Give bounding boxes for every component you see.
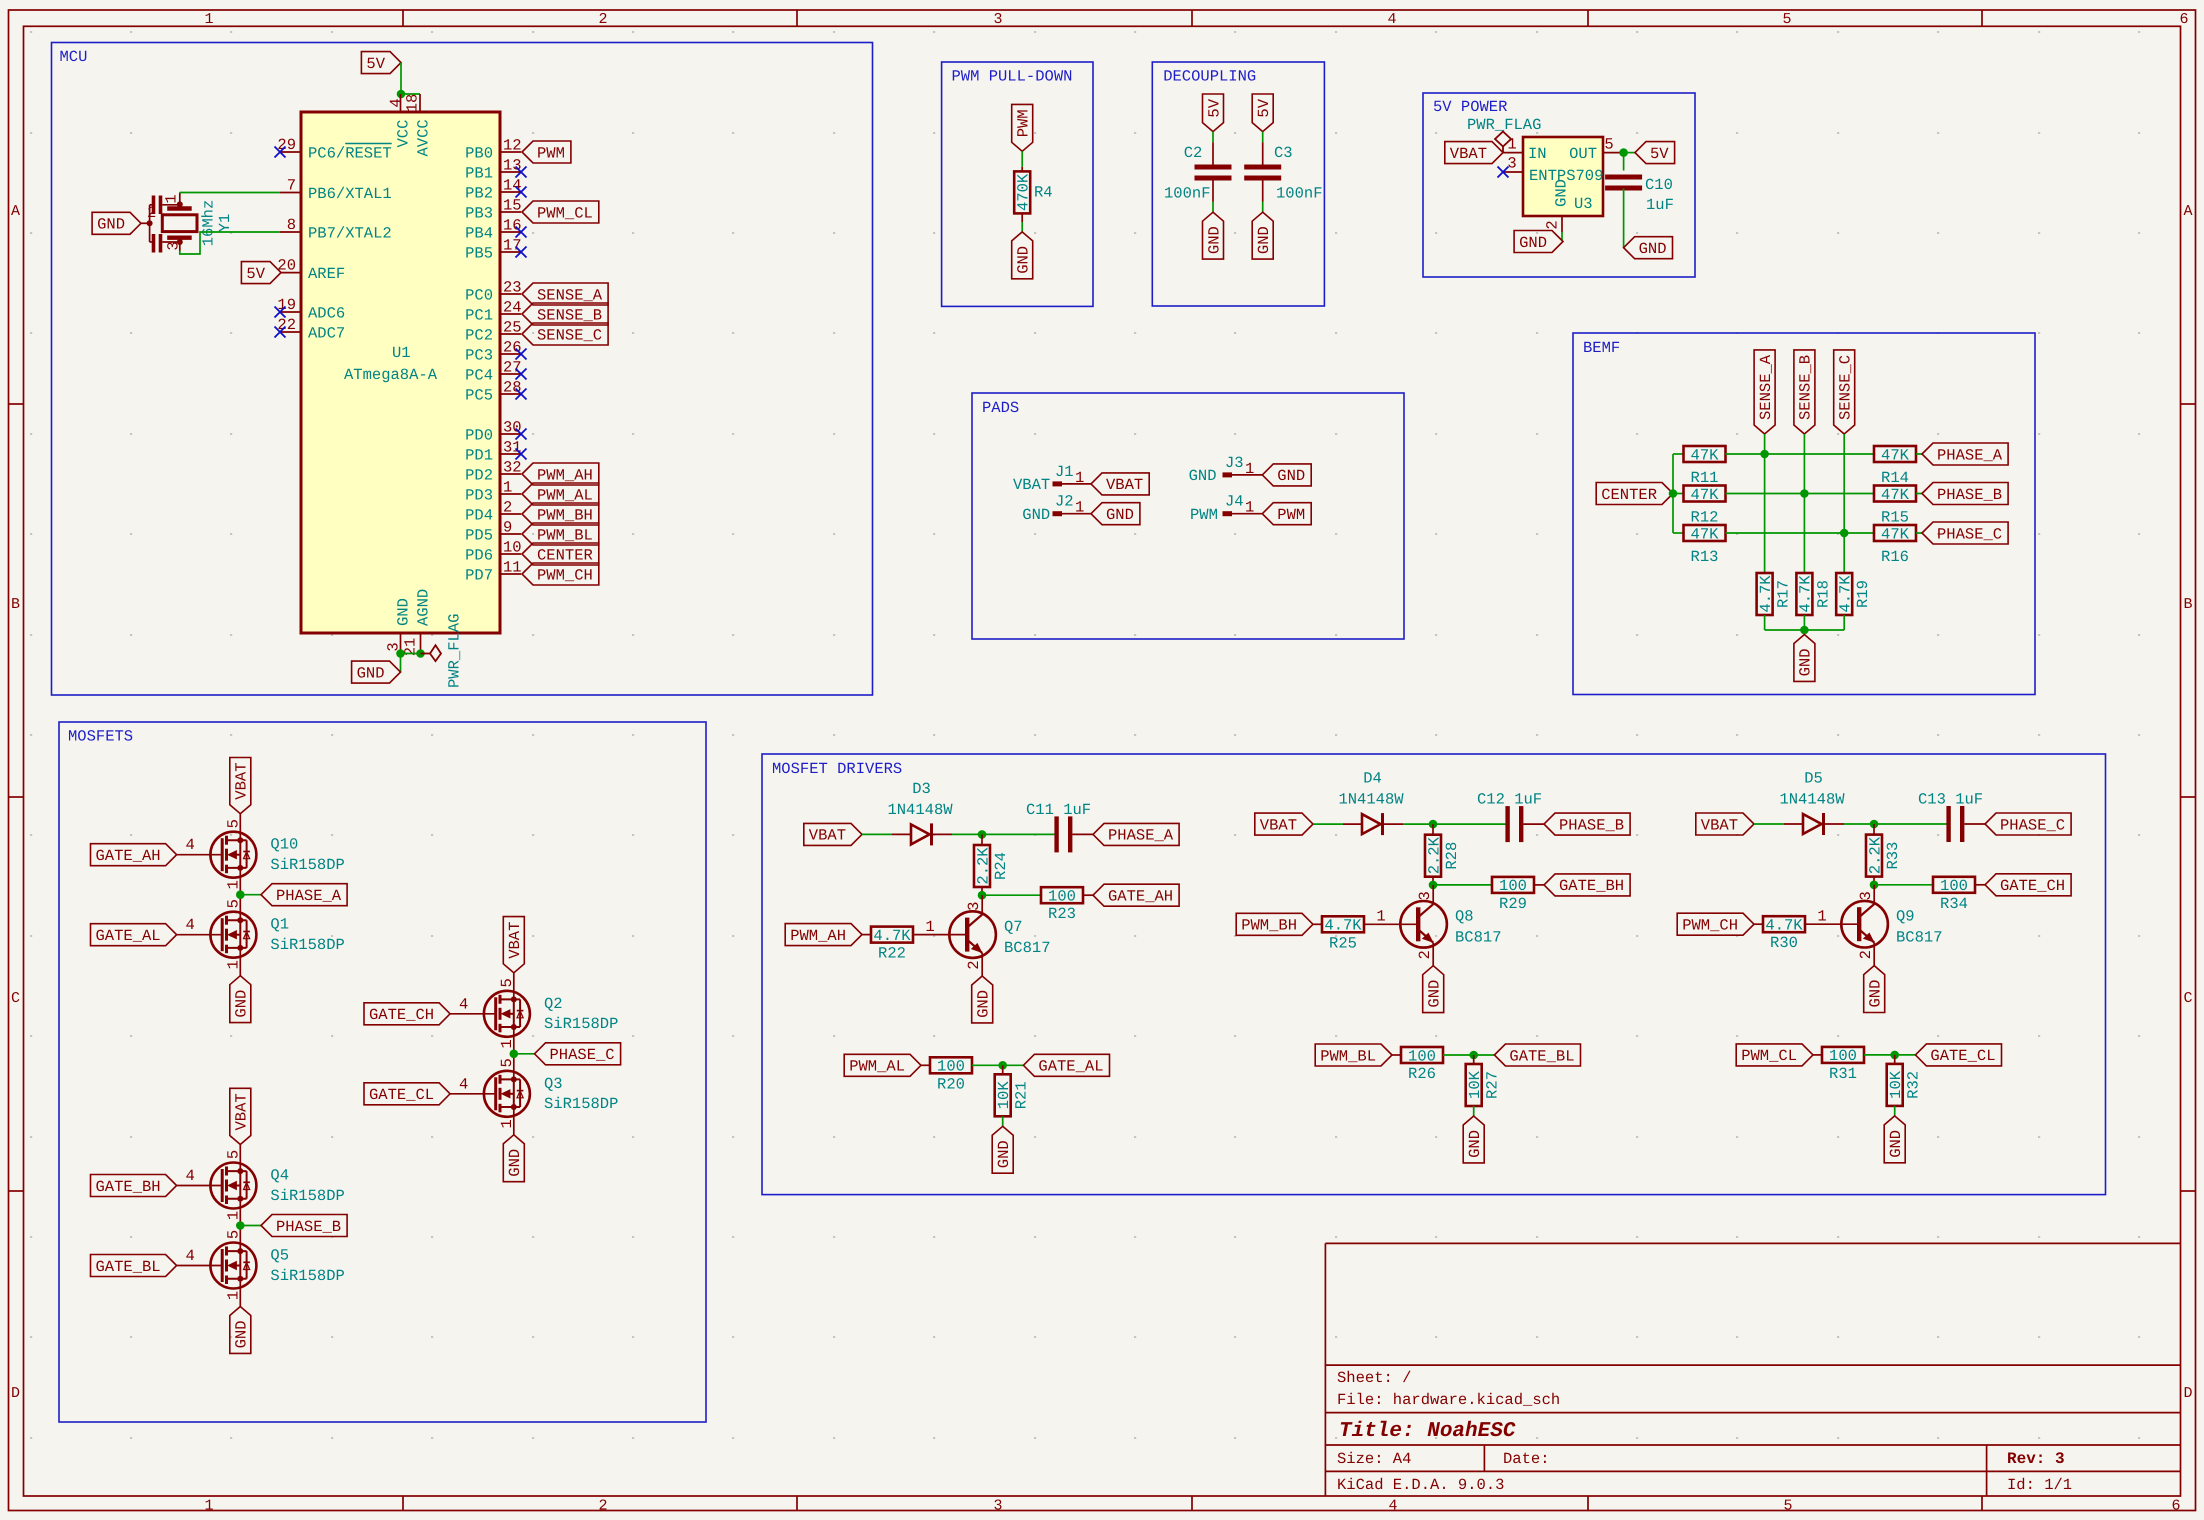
svg-text:GND: GND (357, 664, 385, 682)
global label PWM_BH (1236, 913, 1313, 935)
junction CENTER (1669, 489, 1678, 498)
pin 22 ADC7 (NC) (280, 331, 301, 333)
svg-text:100: 100 (1940, 877, 1968, 895)
capacitor C3 100nF (1244, 165, 1281, 170)
regulator U3 ENTPS709 body (1523, 137, 1603, 216)
svg-text:J2: J2 (1055, 493, 1074, 511)
wire VBAT to D4 (1313, 823, 1343, 825)
svg-text:10K: 10K (1887, 1070, 1905, 1099)
svg-text:100: 100 (937, 1058, 965, 1076)
wire to GND symbol (400, 654, 402, 673)
crystal pin 1 (179, 193, 181, 209)
global label CENTER (1596, 483, 1673, 505)
capacitor C12 1uF (1505, 806, 1509, 842)
pin 20 AREF (281, 272, 301, 274)
svg-text:BC817: BC817 (1896, 929, 1943, 947)
svg-text:10K: 10K (995, 1081, 1013, 1110)
svg-text:PHASE_B: PHASE_B (1559, 816, 1624, 834)
svg-text:GND: GND (1867, 980, 1885, 1008)
wire CENTER bus vertical (1672, 454, 1674, 533)
svg-text:PHASE_A: PHASE_A (276, 887, 342, 905)
svg-text:GND: GND (1553, 179, 1571, 207)
pin 29 PC6/RESET (NC) (280, 151, 301, 153)
pin 16 PB4 (NC) (500, 231, 521, 233)
svg-text:R24: R24 (992, 852, 1010, 880)
svg-text:5V: 5V (366, 55, 385, 73)
svg-text:SiR158DP: SiR158DP (270, 856, 344, 874)
wire 5V to VCC/AVCC junction (401, 63, 420, 94)
svg-text:VBAT: VBAT (809, 827, 846, 845)
resistor R18 4.7K (1796, 573, 1812, 615)
svg-text:1: 1 (1817, 908, 1826, 926)
resistor R19 4.7K (1836, 573, 1852, 615)
svg-text:C2: C2 (1184, 144, 1203, 162)
svg-text:100: 100 (1048, 888, 1076, 906)
svg-text:1: 1 (225, 880, 243, 889)
crystal body (162, 215, 197, 232)
svg-text:PWR_FLAG: PWR_FLAG (1467, 116, 1541, 134)
svg-text:4.7K: 4.7K (873, 927, 911, 945)
svg-text:PADS: PADS (982, 399, 1019, 417)
resistor R24 2.2K (981, 834, 983, 845)
pin 2 PD4 -> PWM_BH (500, 513, 521, 515)
wire gate Q2 (450, 1013, 496, 1015)
crystal pin 3 (179, 238, 181, 251)
svg-text:AGND: AGND (415, 589, 433, 626)
wire C2 to GND (1212, 181, 1214, 202)
wire to PHASE_A label (240, 894, 261, 896)
svg-text:10: 10 (503, 539, 522, 557)
svg-text:PC0: PC0 (465, 286, 493, 304)
svg-text:GND: GND (1205, 226, 1223, 254)
pin 3 (NC) (1504, 171, 1523, 173)
capacitor C13 1uF (1946, 806, 1950, 842)
wire R30 to base (1805, 923, 1859, 925)
pin 1 PD3 -> PWM_AL (500, 493, 521, 495)
svg-text:31: 31 (503, 439, 522, 457)
wire to PHASE_B label (240, 1225, 261, 1227)
svg-text:PD1: PD1 (465, 446, 493, 464)
global label GATE_BL (1494, 1044, 1580, 1066)
svg-text:SENSE_A: SENSE_A (1757, 354, 1775, 420)
junction GATE_BL node (1469, 1051, 1478, 1060)
junction VCC node (397, 90, 406, 99)
svg-text:PD5: PD5 (465, 526, 493, 544)
svg-text:GATE_AL: GATE_AL (96, 927, 161, 945)
svg-text:R30: R30 (1770, 934, 1798, 952)
svg-text:16Mhz: 16Mhz (199, 200, 217, 247)
wire to R34 (1874, 884, 1933, 886)
svg-text:PWM_AL: PWM_AL (537, 486, 593, 504)
power label GND (U3) (1514, 231, 1563, 253)
section MCU (52, 43, 873, 696)
svg-text:PD6: PD6 (465, 546, 493, 564)
svg-text:R16: R16 (1881, 548, 1909, 566)
resistor R12 47K (1684, 486, 1726, 502)
svg-text:4: 4 (1387, 11, 1396, 28)
svg-text:OUT: OUT (1569, 145, 1597, 163)
pin 27 PC4 (NC) (500, 373, 521, 375)
svg-text:4: 4 (387, 98, 405, 107)
section BEMF (1573, 333, 2035, 695)
svg-text:4.7K: 4.7K (1757, 575, 1775, 613)
svg-text:5: 5 (498, 1058, 516, 1067)
global label SENSE_B (PC1) (522, 303, 608, 325)
pin 18 AVCC (419, 94, 421, 112)
svg-text:PB6/XTAL1: PB6/XTAL1 (308, 185, 392, 203)
svg-text:26: 26 (503, 339, 522, 357)
pin 2 GND (U3) (1561, 216, 1563, 232)
svg-text:GATE_CL: GATE_CL (369, 1086, 434, 1104)
pin 4 VCC (400, 94, 402, 112)
svg-text:Rev: 3: Rev: 3 (2007, 1450, 2065, 1468)
global label SENSE_B (1794, 350, 1815, 434)
svg-text:VBAT: VBAT (1106, 476, 1143, 494)
svg-text:PB0: PB0 (465, 144, 493, 162)
svg-text:GND: GND (1106, 506, 1134, 524)
svg-text:PB5: PB5 (465, 244, 493, 262)
svg-text:4.7K: 4.7K (1765, 917, 1803, 935)
svg-text:PD7: PD7 (465, 566, 493, 584)
svg-text:PD4: PD4 (465, 506, 493, 524)
pin 19 ADC6 (NC) (280, 311, 301, 313)
svg-text:2: 2 (1544, 220, 1562, 229)
svg-text:GND: GND (233, 990, 251, 1018)
resistor R33 2.2K (1873, 824, 1875, 835)
global label PWM_AH (PD2) (522, 463, 599, 485)
svg-text:AVCC: AVCC (415, 119, 433, 156)
svg-text:Q5: Q5 (270, 1247, 289, 1265)
pin 9 PD5 -> PWM_BL (500, 533, 521, 535)
svg-text:PWM: PWM (537, 144, 565, 162)
svg-text:GATE_CH: GATE_CH (2000, 877, 2065, 895)
global label PHASE_C (535, 1043, 621, 1065)
svg-text:3: 3 (965, 902, 983, 911)
svg-text:U3: U3 (1574, 195, 1593, 213)
svg-text:PHASE_B: PHASE_B (1937, 486, 2002, 504)
power label GND (R27) (1463, 1116, 1484, 1163)
section MOSFETS (59, 722, 706, 1422)
global label GATE_BH (1544, 874, 1630, 896)
svg-text:2: 2 (503, 499, 512, 517)
svg-text:GND: GND (233, 1320, 251, 1348)
svg-text:47K: 47K (1881, 486, 1910, 504)
svg-text:27: 27 (503, 359, 522, 377)
svg-text:GATE_AL: GATE_AL (1038, 1058, 1103, 1076)
resistor R29 100 (1492, 877, 1534, 893)
svg-text:4.7K: 4.7K (1324, 917, 1362, 935)
svg-text:GND: GND (975, 990, 993, 1018)
svg-text:PWM: PWM (1277, 506, 1305, 524)
IC U1 ATmega8A-A body (301, 112, 500, 633)
svg-text:D4: D4 (1363, 770, 1382, 788)
svg-text:AREF: AREF (308, 265, 345, 283)
svg-text:R23: R23 (1048, 905, 1076, 923)
junction 5V out (1619, 148, 1628, 157)
wire R15 to PHASE_B (1916, 493, 1922, 495)
svg-text:ADC6: ADC6 (308, 304, 345, 322)
svg-text:4: 4 (459, 995, 468, 1013)
svg-text:PWM_CH: PWM_CH (1682, 917, 1738, 935)
svg-text:GND: GND (1189, 467, 1217, 485)
resistor R28 2.2K (1432, 824, 1434, 835)
transistor Q8 BC817 (1400, 901, 1447, 948)
svg-text:GATE_BH: GATE_BH (1559, 877, 1624, 895)
svg-text:Y1: Y1 (216, 214, 234, 233)
svg-text:J1: J1 (1055, 463, 1074, 481)
wire C10 to GND (1623, 189, 1625, 248)
power label GND (crystal) (92, 212, 141, 234)
svg-text:PHASE_C: PHASE_C (1937, 525, 2002, 543)
wire R20 to GATE_AL (972, 1064, 1023, 1066)
svg-text:D: D (2183, 1385, 2192, 1402)
svg-text:100nF: 100nF (1164, 184, 1211, 202)
pin 3 GND (MCU) (400, 633, 402, 654)
junction PHASE_B (236, 1221, 245, 1230)
global label SENSE_A (PC0) (522, 283, 608, 305)
svg-text:C11 1uF: C11 1uF (1026, 801, 1091, 819)
global label PHASE_A (1922, 443, 2008, 465)
global label PWM (pull-down) (1012, 104, 1033, 151)
svg-text:5: 5 (225, 1230, 243, 1239)
global label PHASE_A (driver) (1093, 823, 1179, 845)
global label CENTER (PD6) (522, 543, 599, 565)
wire D3 to C11 (952, 833, 1055, 835)
svg-text:D: D (11, 1385, 20, 1402)
svg-text:A: A (11, 203, 20, 220)
svg-text:2: 2 (1857, 950, 1875, 959)
svg-text:PWM_AH: PWM_AH (537, 466, 593, 484)
wire R32 to GND (1894, 1106, 1896, 1116)
power label VBAT (Q2) (503, 917, 524, 973)
svg-text:VBAT: VBAT (233, 1093, 251, 1130)
wire J3 to label (1232, 474, 1262, 476)
transistor Q2 SiR158DP (484, 991, 530, 1037)
svg-text:PHASE_C: PHASE_C (2000, 816, 2065, 834)
wire R18 to GND rail (1803, 615, 1805, 630)
svg-text:PD3: PD3 (465, 486, 493, 504)
svg-text:100: 100 (1499, 877, 1527, 895)
power label GND (Q9) (1864, 966, 1885, 1013)
svg-text:GND: GND (97, 216, 125, 234)
power label 5V (C2) (1203, 94, 1224, 132)
pin 10 PD6 -> CENTER (500, 553, 521, 555)
section DECOUPLING (1152, 62, 1324, 306)
svg-text:1: 1 (498, 1039, 516, 1048)
svg-text:PB4: PB4 (465, 224, 493, 242)
wire 5V to C3 (1262, 132, 1264, 143)
wire gate Q3 (450, 1093, 496, 1095)
capacitor C10 1uF (1605, 175, 1642, 180)
global label PWM_AL (844, 1054, 921, 1076)
junction GATE_CL node (1890, 1051, 1899, 1060)
svg-text:4: 4 (1388, 1498, 1397, 1515)
svg-text:PWM_BL: PWM_BL (537, 526, 593, 544)
wire gate Q10 (177, 854, 223, 856)
wire R22 to base (913, 934, 967, 936)
power label VBAT (U3 in) (1445, 142, 1503, 164)
svg-text:17: 17 (503, 237, 522, 255)
svg-text:9: 9 (503, 519, 512, 537)
svg-text:GATE_BL: GATE_BL (96, 1258, 161, 1276)
wire CENTER to R11 (1673, 453, 1684, 455)
junction GATE_CH node (1870, 881, 1879, 890)
junction PHASE_B row (1800, 489, 1809, 498)
global label PWM_CL (PB3) (522, 201, 599, 223)
svg-text:PHASE_A: PHASE_A (1937, 446, 2003, 464)
svg-text:PHASE_A: PHASE_A (1108, 827, 1174, 845)
power label GND (Q7) (972, 976, 993, 1023)
wire OUT to C10 (1623, 153, 1625, 171)
svg-text:R28: R28 (1443, 842, 1461, 870)
svg-text:PWM_BH: PWM_BH (537, 506, 593, 524)
svg-text:1: 1 (925, 918, 934, 936)
svg-text:4: 4 (459, 1075, 468, 1093)
global label GATE_BL (91, 1255, 177, 1277)
svg-text:2.2K: 2.2K (1866, 836, 1884, 874)
svg-text:16: 16 (503, 217, 522, 235)
svg-text:GATE_AH: GATE_AH (96, 847, 161, 865)
power label 5V (AREF) (241, 262, 281, 284)
wire R16 to PHASE_C (1916, 532, 1922, 534)
svg-text:GND: GND (1519, 234, 1547, 252)
svg-text:4.7K: 4.7K (1837, 575, 1855, 613)
svg-text:B: B (2183, 596, 2192, 613)
crystal pin 2 / GND side (149, 205, 151, 242)
pin 26 PC3 (NC) (500, 353, 521, 355)
svg-text:4: 4 (185, 1247, 194, 1265)
wire SENSE_C vertical (1843, 434, 1845, 573)
svg-text:14: 14 (503, 177, 522, 195)
svg-text:3: 3 (1416, 891, 1434, 900)
svg-text:VBAT: VBAT (1701, 816, 1738, 834)
svg-text:5: 5 (225, 819, 243, 828)
svg-text:C: C (11, 990, 20, 1007)
power label 5V (C3) (1252, 94, 1273, 132)
global label GND (J3) (1262, 464, 1311, 486)
global label PHASE_A (261, 884, 347, 906)
svg-text:GND: GND (1426, 980, 1444, 1008)
svg-text:5: 5 (1782, 11, 1791, 28)
resistor R21 10K (1002, 1065, 1004, 1074)
power label GND (Q8) (1423, 966, 1444, 1013)
svg-text:PC6/RESET: PC6/RESET (308, 144, 392, 162)
svg-text:SENSE_C: SENSE_C (537, 326, 602, 344)
wire OUT to 5V label (1624, 152, 1635, 154)
svg-text:Q2: Q2 (544, 995, 563, 1013)
transistor Q10 SiR158DP (210, 832, 256, 878)
pin 11 PD7 -> PWM_CH (500, 573, 521, 575)
junction D5 out (1870, 820, 1879, 829)
global label PHASE_C (1922, 522, 2008, 544)
svg-text:PC3: PC3 (465, 346, 493, 364)
pin 15 PB3 -> PWM_CL (500, 211, 521, 213)
svg-text:PB3: PB3 (465, 204, 493, 222)
global label GATE_BH (91, 1175, 177, 1197)
svg-text:SENSE_B: SENSE_B (537, 306, 602, 324)
pin 12 PB0 -> PWM (500, 151, 521, 153)
svg-text:SENSE_C: SENSE_C (1837, 355, 1855, 420)
svg-text:15: 15 (503, 197, 522, 215)
svg-text:PB1: PB1 (465, 164, 493, 182)
junction D3 out (978, 830, 987, 839)
resistor R4 470K (1014, 171, 1030, 213)
svg-text:R20: R20 (937, 1075, 965, 1093)
svg-text:1N4148W: 1N4148W (1779, 791, 1845, 809)
svg-text:1uF: 1uF (1646, 196, 1674, 214)
wire R14 to PHASE_A (1916, 453, 1922, 455)
svg-text:2.2K: 2.2K (1425, 836, 1443, 874)
svg-text:GATE_BL: GATE_BL (1509, 1047, 1574, 1065)
wire VBAT to D5 (1754, 823, 1784, 825)
svg-text:12: 12 (503, 137, 522, 155)
pin 17 PB5 (NC) (500, 251, 521, 253)
resistor R34 100 (1933, 877, 1975, 893)
svg-text:47K: 47K (1691, 486, 1720, 504)
global label PWM_BH (PD4) (522, 503, 599, 525)
svg-text:GND: GND (506, 1149, 524, 1177)
section MOSFET DRIVERS (762, 754, 2106, 1195)
svg-text:VBAT: VBAT (1260, 816, 1297, 834)
wire PWM to R4 (1021, 151, 1023, 167)
global label PWM_BL (1315, 1044, 1392, 1066)
svg-text:3: 3 (993, 1498, 1002, 1515)
wire XTAL2 (180, 232, 280, 254)
svg-text:PC1: PC1 (465, 306, 493, 324)
pin 13 PB1 (NC) (500, 171, 521, 173)
svg-text:5: 5 (1783, 1498, 1792, 1515)
svg-text:PB7/XTAL2: PB7/XTAL2 (308, 224, 392, 242)
pin 32 PD2 -> PWM_AH (500, 473, 521, 475)
wire C3 to GND (1262, 181, 1264, 202)
svg-text:Q1: Q1 (270, 916, 289, 934)
svg-text:GND: GND (1015, 246, 1033, 274)
global label VBAT (J1) (1091, 473, 1149, 495)
svg-text:23: 23 (503, 279, 522, 297)
global label PWM_CH (1677, 913, 1754, 935)
resistor R14 47K (1874, 446, 1916, 462)
svg-text:R29: R29 (1499, 895, 1527, 913)
svg-text:4: 4 (185, 836, 194, 854)
transistor Q5 SiR158DP (210, 1243, 256, 1289)
junction GATE_AL node (998, 1061, 1007, 1070)
svg-text:5: 5 (225, 899, 243, 908)
svg-text:PC2: PC2 (465, 326, 493, 344)
svg-text:5V: 5V (1255, 98, 1273, 117)
svg-text:PWM_CL: PWM_CL (1741, 1047, 1797, 1065)
junction GND rail (1800, 626, 1809, 635)
svg-text:R25: R25 (1329, 934, 1357, 952)
wire gate Q4 (177, 1185, 223, 1187)
resistor R17 4.7K (1757, 573, 1773, 615)
global label PWM_CL (1736, 1044, 1813, 1066)
svg-text:File: hardware.kicad_sch: File: hardware.kicad_sch (1337, 1391, 1560, 1409)
svg-text:100: 100 (1829, 1047, 1857, 1065)
svg-text:GND: GND (995, 1140, 1013, 1168)
svg-text:4: 4 (185, 916, 194, 934)
svg-text:30: 30 (503, 419, 522, 437)
svg-text:1: 1 (503, 479, 512, 497)
resistor R25 4.7K (1322, 916, 1364, 932)
svg-text:BEMF: BEMF (1583, 339, 1620, 357)
transistor Q9 BC817 (1841, 901, 1888, 948)
wire D4 to C12 (1403, 823, 1506, 825)
global label PHASE_B (driver) (1544, 813, 1630, 835)
resistor R32 10K (1894, 1055, 1896, 1064)
power label GND (C2) (1203, 212, 1224, 259)
svg-text:1: 1 (225, 1291, 243, 1300)
svg-text:C13 1uF: C13 1uF (1918, 791, 1983, 809)
